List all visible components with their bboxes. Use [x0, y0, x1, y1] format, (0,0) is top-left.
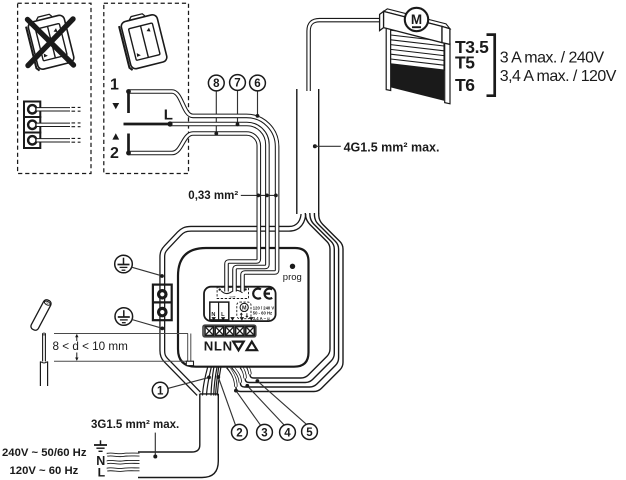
- svg-text:4: 4: [284, 428, 291, 440]
- svg-text:3,4 A max. / 120V: 3,4 A max. / 120V: [500, 68, 617, 85]
- svg-text:2: 2: [110, 145, 119, 162]
- svg-text:prog: prog: [283, 272, 302, 283]
- svg-text:core: core: [230, 295, 236, 299]
- svg-text:M: M: [242, 306, 247, 312]
- svg-text:8 < d < 10 mm: 8 < d < 10 mm: [53, 340, 128, 353]
- svg-text:3 A max. / 240V: 3 A max. / 240V: [500, 49, 605, 66]
- svg-text:3,4 A ~ µ: 3,4 A ~ µ: [253, 316, 270, 321]
- svg-text:NLN: NLN: [204, 339, 233, 354]
- svg-text:1: 1: [110, 77, 119, 94]
- svg-text:L: L: [98, 466, 106, 480]
- svg-text:1: 1: [157, 385, 164, 397]
- svg-text:3: 3: [261, 428, 267, 440]
- svg-text:0,33 mm²: 0,33 mm²: [188, 190, 238, 202]
- svg-text:120 / 240 V: 120 / 240 V: [253, 305, 275, 310]
- svg-text:L: L: [164, 107, 173, 124]
- svg-text:4G1.5 mm² max.: 4G1.5 mm² max.: [344, 140, 440, 154]
- svg-text:5: 5: [306, 427, 313, 439]
- svg-text:T6: T6: [455, 75, 475, 95]
- svg-text:7: 7: [234, 78, 240, 90]
- svg-text:120V ~ 60 Hz: 120V ~ 60 Hz: [10, 465, 79, 477]
- svg-text:3G1.5 mm² max.: 3G1.5 mm² max.: [91, 419, 179, 431]
- svg-text:8: 8: [213, 78, 220, 90]
- svg-text:50 - 60 Hz: 50 - 60 Hz: [253, 311, 272, 316]
- svg-text:M: M: [411, 12, 422, 27]
- svg-text:2: 2: [236, 428, 242, 440]
- svg-text:6: 6: [254, 78, 260, 90]
- svg-text:240V ~ 50/60 Hz: 240V ~ 50/60 Hz: [2, 447, 87, 459]
- svg-text:T5: T5: [455, 53, 475, 73]
